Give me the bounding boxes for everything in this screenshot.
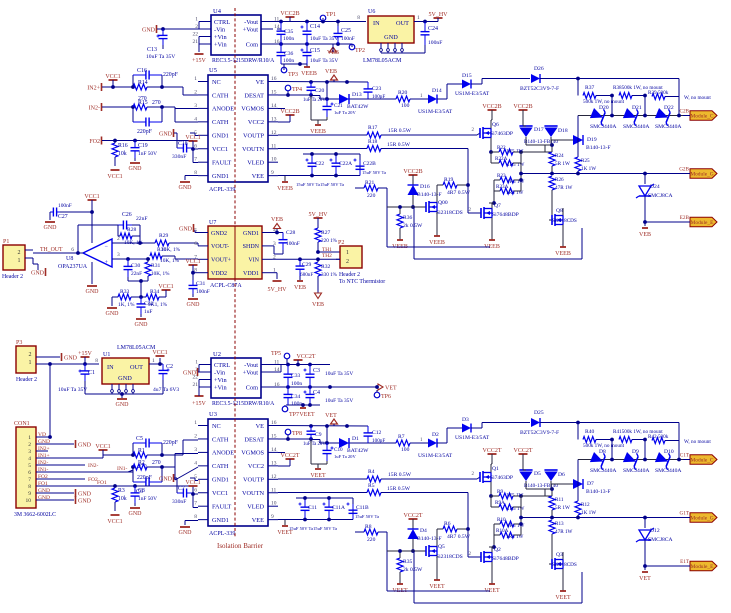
svg-text:VCC1: VCC1 <box>185 480 200 486</box>
svg-text:C12: C12 <box>372 430 382 436</box>
svg-text:47R 1W: 47R 1W <box>555 529 573 535</box>
svg-text:TP5: TP5 <box>271 351 281 357</box>
svg-text:15R 0.5W: 15R 0.5W <box>387 142 411 148</box>
svg-text:To NTC Thermistor: To NTC Thermistor <box>339 279 385 285</box>
svg-text:OUT: OUT <box>396 20 409 27</box>
svg-text:Q00: Q00 <box>438 200 448 206</box>
svg-text:+Vin: +Vin <box>214 41 227 48</box>
svg-text:14: 14 <box>271 103 277 109</box>
svg-text:D22: D22 <box>664 105 674 111</box>
svg-text:R22: R22 <box>497 145 506 151</box>
svg-text:R8: R8 <box>365 524 372 530</box>
svg-text:2k 0.5W: 2k 0.5W <box>403 223 423 229</box>
svg-text:R18: R18 <box>368 139 378 145</box>
svg-text:16: 16 <box>271 76 277 82</box>
svg-text:TH_OUT: TH_OUT <box>40 247 63 253</box>
svg-text:R13: R13 <box>555 521 564 527</box>
svg-text:22nF: 22nF <box>136 216 148 222</box>
svg-text:100nF: 100nF <box>286 241 300 247</box>
svg-text:VD: VD <box>38 432 46 438</box>
svg-text:3: 3 <box>28 449 31 455</box>
svg-text:10uF Ta 35V: 10uF Ta 35V <box>146 54 175 60</box>
svg-text:GND: GND <box>118 375 132 382</box>
svg-text:D7: D7 <box>587 481 594 487</box>
svg-text:W, no mount: W, no mount <box>684 95 711 101</box>
svg-text:VOUT-: VOUT- <box>211 244 229 250</box>
svg-text:100nF: 100nF <box>196 289 210 295</box>
svg-text:C8: C8 <box>138 488 145 494</box>
svg-text:GND: GND <box>159 476 173 482</box>
svg-text:D19: D19 <box>587 137 597 143</box>
svg-text:GND: GND <box>183 370 197 376</box>
svg-text:10: 10 <box>271 157 277 163</box>
svg-text:-Vout: -Vout <box>244 362 258 369</box>
svg-text:VE: VE <box>256 423 265 430</box>
svg-text:Si7648BDP: Si7648BDP <box>492 212 519 218</box>
svg-text:1: 1 <box>195 360 198 366</box>
svg-text:4: 4 <box>194 116 197 122</box>
svg-text:16: 16 <box>271 420 277 426</box>
svg-text:VEET: VEET <box>429 584 445 590</box>
svg-text:+15V: +15V <box>192 58 206 64</box>
svg-text:VCC2T: VCC2T <box>296 354 315 360</box>
svg-text:15R 0.5W: 15R 0.5W <box>387 486 411 492</box>
svg-text:D18: D18 <box>558 128 568 134</box>
svg-text:100n: 100n <box>291 381 302 387</box>
svg-text:2k 0.5W: 2k 0.5W <box>403 567 423 573</box>
svg-text:4: 4 <box>28 456 31 462</box>
svg-text:R23: R23 <box>497 173 506 179</box>
svg-text:VEET: VEET <box>555 595 571 601</box>
svg-text:SMCJ440A: SMCJ440A <box>590 468 616 474</box>
svg-text:R35: R35 <box>403 559 413 565</box>
svg-text:R17: R17 <box>368 125 378 131</box>
svg-text:Module_G: Module_G <box>690 172 713 178</box>
svg-text:Si7648BDP: Si7648BDP <box>492 556 519 562</box>
svg-text:CTRL: CTRL <box>214 19 230 26</box>
svg-text:W, no mount: W, no mount <box>684 439 711 445</box>
svg-text:R12: R12 <box>581 502 590 508</box>
svg-text:5V_HV: 5V_HV <box>429 12 449 18</box>
svg-text:GND: GND <box>106 311 120 317</box>
svg-text:SMCJ440A: SMCJ440A <box>590 124 616 130</box>
svg-text:R7: R7 <box>398 434 405 440</box>
svg-text:Header 2: Header 2 <box>2 274 23 280</box>
svg-text:VEEB: VEEB <box>310 129 326 135</box>
svg-text:2: 2 <box>346 259 349 265</box>
svg-text:D16: D16 <box>420 184 430 190</box>
svg-text:10uF Ta 35V: 10uF Ta 35V <box>58 387 87 393</box>
svg-text:5R 1W: 5R 1W <box>555 505 570 511</box>
svg-text:R5: R5 <box>368 483 375 489</box>
svg-text:8: 8 <box>28 484 31 490</box>
svg-text:IN2-: IN2- <box>38 460 49 466</box>
svg-text:1K 1W: 1K 1W <box>581 510 596 516</box>
svg-text:P1: P1 <box>3 239 9 245</box>
svg-text:GND: GND <box>129 166 143 172</box>
svg-text:GND: GND <box>142 27 156 33</box>
svg-text:VDD1: VDD1 <box>243 271 259 277</box>
svg-text:GND: GND <box>78 491 92 497</box>
svg-text:Com: Com <box>246 384 258 391</box>
svg-text:IN: IN <box>107 364 114 371</box>
svg-text:C22: C22 <box>315 161 324 167</box>
svg-text:4R7 0.5W: 4R7 0.5W <box>447 190 471 196</box>
svg-text:Si7463DP: Si7463DP <box>490 475 513 481</box>
svg-text:C22B: C22B <box>363 161 376 167</box>
svg-text:GND: GND <box>129 511 143 517</box>
svg-text:13: 13 <box>271 460 277 466</box>
svg-text:GND1: GND1 <box>212 517 229 524</box>
svg-text:P3: P3 <box>16 340 22 346</box>
svg-text:C36: C36 <box>284 51 294 57</box>
svg-text:C2: C2 <box>166 364 173 370</box>
svg-text:47R 1W: 47R 1W <box>555 185 573 191</box>
svg-text:5R 1W: 5R 1W <box>555 161 570 167</box>
svg-text:Q1: Q1 <box>492 466 499 472</box>
svg-text:C31: C31 <box>196 281 206 287</box>
svg-text:D8: D8 <box>599 449 606 455</box>
svg-text:1uF Ta 20V: 1uF Ta 20V <box>334 454 356 459</box>
svg-text:1: 1 <box>29 360 32 366</box>
svg-text:REC3.5-1215DRW/R10/A: REC3.5-1215DRW/R10/A <box>212 58 275 64</box>
svg-text:TH2: TH2 <box>322 253 332 259</box>
svg-text:220pF: 220pF <box>163 440 179 446</box>
svg-text:B140-13-F: B140-13-F <box>586 145 611 151</box>
svg-text:21: 21 <box>193 39 199 45</box>
svg-text:GND: GND <box>44 225 58 231</box>
svg-text:R42 500k: R42 500k <box>648 434 669 440</box>
svg-text:US1M-E3/5AT: US1M-E3/5AT <box>455 91 490 97</box>
svg-text:CATH: CATH <box>212 92 229 99</box>
svg-text:GND: GND <box>78 442 92 448</box>
svg-text:6: 6 <box>194 487 197 493</box>
svg-text:C32: C32 <box>144 301 154 307</box>
svg-text:GND: GND <box>187 302 201 308</box>
svg-text:6: 6 <box>71 247 74 253</box>
svg-text:R10: R10 <box>497 517 506 523</box>
svg-text:R32: R32 <box>321 264 331 270</box>
svg-text:D9: D9 <box>632 449 639 455</box>
svg-text:VLED: VLED <box>247 504 264 511</box>
svg-text:IN1-: IN1- <box>38 467 49 473</box>
svg-text:15uF 50V Ta: 15uF 50V Ta <box>296 182 320 187</box>
svg-text:13: 13 <box>271 116 277 122</box>
svg-text:1: 1 <box>152 358 155 364</box>
svg-text:TP6: TP6 <box>381 394 391 400</box>
svg-text:6: 6 <box>28 470 31 476</box>
svg-text:VCC2B: VCC2B <box>280 11 299 17</box>
svg-text:VCC2B: VCC2B <box>403 169 422 175</box>
svg-text:270: 270 <box>152 460 161 466</box>
svg-text:3M 3662-6002LC: 3M 3662-6002LC <box>14 512 56 518</box>
svg-text:C25: C25 <box>341 28 351 34</box>
svg-text:Si2318CDS: Si2318CDS <box>436 554 463 560</box>
svg-text:VEB: VEB <box>294 285 306 291</box>
svg-text:GND1: GND1 <box>212 133 229 140</box>
svg-text:U8: U8 <box>66 256 73 262</box>
svg-text:15uF 50V Ta: 15uF 50V Ta <box>313 526 337 531</box>
svg-text:FO1: FO1 <box>97 480 107 486</box>
svg-text:15R 0.5W: 15R 0.5W <box>388 472 412 478</box>
svg-text:VCC2T: VCC2T <box>280 453 299 459</box>
svg-text:100n: 100n <box>283 58 294 64</box>
svg-text:C11: C11 <box>308 505 317 511</box>
svg-text:VET: VET <box>325 413 337 419</box>
svg-text:E2B: E2B <box>680 215 690 221</box>
svg-text:15uF 50V Ta: 15uF 50V Ta <box>320 182 344 187</box>
svg-text:US1M-E3/5AT: US1M-E3/5AT <box>418 109 453 115</box>
svg-text:C3: C3 <box>313 368 320 374</box>
svg-text:10uF Ta 35V: 10uF Ta 35V <box>325 371 353 377</box>
svg-text:9: 9 <box>271 170 274 176</box>
svg-text:VLED: VLED <box>247 160 264 167</box>
svg-text:R4: R4 <box>368 469 375 475</box>
svg-text:VCC1: VCC1 <box>152 350 167 356</box>
svg-text:Module_E: Module_E <box>691 220 714 226</box>
svg-text:8: 8 <box>357 15 360 21</box>
svg-text:D24: D24 <box>650 184 660 190</box>
svg-text:R3: R3 <box>118 488 125 494</box>
svg-text:VDD2: VDD2 <box>211 271 227 277</box>
svg-text:VCC1: VCC1 <box>107 174 122 180</box>
svg-text:1nF 50V: 1nF 50V <box>138 151 157 157</box>
svg-text:VOUTN: VOUTN <box>242 490 264 497</box>
svg-text:VCC2T: VCC2T <box>482 448 501 454</box>
svg-text:VCC1: VCC1 <box>105 74 120 80</box>
svg-text:12: 12 <box>271 130 277 136</box>
svg-text:OPA237UA: OPA237UA <box>58 264 88 270</box>
svg-text:Header 2: Header 2 <box>339 272 360 278</box>
svg-text:GND1: GND1 <box>212 173 229 180</box>
svg-text:U6: U6 <box>368 9 375 15</box>
svg-text:VCC2B: VCC2B <box>513 104 532 110</box>
svg-text:330 1%: 330 1% <box>321 272 338 278</box>
svg-text:TP8: TP8 <box>292 431 302 437</box>
svg-text:VCC1: VCC1 <box>212 490 228 497</box>
svg-text:C21: C21 <box>334 103 343 109</box>
svg-text:Si2318CDS: Si2318CDS <box>552 218 577 224</box>
svg-text:SHDN: SHDN <box>243 244 260 250</box>
svg-text:Q6: Q6 <box>492 122 499 128</box>
svg-text:C22A: C22A <box>339 161 352 167</box>
svg-text:SMCJ440A: SMCJ440A <box>655 124 681 130</box>
svg-text:R21: R21 <box>365 180 375 186</box>
svg-text:15uF 50V Ta: 15uF 50V Ta <box>355 514 379 519</box>
svg-text:C4: C4 <box>313 390 320 396</box>
svg-text:C28: C28 <box>286 230 296 236</box>
svg-text:C19: C19 <box>138 143 148 149</box>
svg-text:VEB: VEB <box>271 217 283 223</box>
svg-text:R20: R20 <box>398 90 408 96</box>
svg-text:VOUT+: VOUT+ <box>211 258 232 264</box>
svg-text:C1: C1 <box>88 370 95 376</box>
svg-text:C18: C18 <box>178 141 188 147</box>
svg-text:Si2318CDS: Si2318CDS <box>552 562 577 568</box>
svg-text:4R7 0.5W: 4R7 0.5W <box>447 534 471 540</box>
svg-text:C1T: C1T <box>680 453 690 459</box>
svg-text:15: 15 <box>271 433 277 439</box>
svg-text:8: 8 <box>194 514 197 520</box>
svg-text:11: 11 <box>271 487 277 493</box>
svg-text:SMCJ440A: SMCJ440A <box>623 124 649 130</box>
svg-text:US1M-E3/5AT: US1M-E3/5AT <box>418 453 453 459</box>
svg-text:22nF: 22nF <box>131 271 142 277</box>
svg-text:15uF 50V Ta: 15uF 50V Ta <box>362 170 386 175</box>
svg-text:ANODE: ANODE <box>212 106 234 113</box>
svg-text:IN1-: IN1- <box>117 466 128 472</box>
svg-text:VEEB: VEEB <box>277 186 293 192</box>
svg-text:1uF: 1uF <box>144 309 152 315</box>
svg-text:330nF: 330nF <box>172 154 186 160</box>
svg-text:+15V: +15V <box>192 401 206 407</box>
svg-text:C23: C23 <box>372 86 382 92</box>
svg-text:G2B: G2B <box>679 167 689 173</box>
svg-text:R1: R1 <box>138 448 145 454</box>
svg-text:FO2: FO2 <box>89 139 100 145</box>
svg-text:US1M-E3/5AT: US1M-E3/5AT <box>455 435 490 441</box>
svg-text:680nF: 680nF <box>300 272 313 278</box>
svg-text:4u7 Ta 6V3: 4u7 Ta 6V3 <box>153 387 179 393</box>
svg-text:Q3: Q3 <box>556 552 563 558</box>
svg-text:VCC2T: VCC2T <box>403 513 422 519</box>
svg-text:CTRL: CTRL <box>214 362 230 369</box>
svg-text:GND: GND <box>179 185 193 191</box>
svg-text:B140-13-F: B140-13-F <box>417 192 442 198</box>
svg-text:D5: D5 <box>534 471 541 477</box>
svg-text:100: 100 <box>401 447 410 453</box>
svg-text:C13: C13 <box>147 47 157 53</box>
svg-text:D1: D1 <box>352 436 359 442</box>
svg-text:15: 15 <box>271 89 277 95</box>
svg-text:1: 1 <box>194 76 197 82</box>
svg-text:CON1: CON1 <box>14 421 30 427</box>
svg-text:C15: C15 <box>310 48 320 54</box>
svg-text:7: 7 <box>194 501 197 507</box>
svg-text:10k: 10k <box>118 151 127 157</box>
svg-text:5: 5 <box>28 463 31 469</box>
svg-text:GND: GND <box>116 402 130 408</box>
svg-text:R36: R36 <box>403 215 413 221</box>
svg-text:6: 6 <box>194 241 197 247</box>
svg-text:D12: D12 <box>650 528 660 534</box>
svg-text:R9: R9 <box>497 489 503 495</box>
svg-text:IN2-: IN2- <box>89 105 100 111</box>
svg-text:GND2: GND2 <box>211 231 227 237</box>
svg-text:VEB: VEB <box>325 69 337 75</box>
svg-text:DESAT: DESAT <box>244 436 264 443</box>
svg-text:GND: GND <box>64 356 78 362</box>
svg-text:10uF Ta 35V: 10uF Ta 35V <box>310 58 338 64</box>
svg-text:VEEB: VEEB <box>555 251 571 257</box>
svg-text:VEEB: VEEB <box>301 71 317 77</box>
svg-text:D2: D2 <box>432 432 439 438</box>
svg-text:IN: IN <box>373 20 380 27</box>
svg-text:220: 220 <box>367 193 376 199</box>
svg-text:15uF 50V Ta: 15uF 50V Ta <box>289 526 313 531</box>
svg-text:DESAT: DESAT <box>244 92 264 99</box>
svg-text:10uF Ta 35V: 10uF Ta 35V <box>325 398 353 404</box>
svg-text:Si7463DP: Si7463DP <box>490 131 513 137</box>
svg-text:VCC1: VCC1 <box>185 135 200 141</box>
svg-text:C30: C30 <box>131 263 141 269</box>
svg-text:VET: VET <box>385 386 397 392</box>
svg-text:C34: C34 <box>291 394 301 400</box>
svg-text:E1T: E1T <box>680 559 690 565</box>
svg-text:LM78L05ACM: LM78L05ACM <box>363 58 402 64</box>
svg-text:2: 2 <box>117 236 120 242</box>
svg-text:BZT52C3V9-7-F: BZT52C3V9-7-F <box>520 86 559 92</box>
svg-text:220 1%: 220 1% <box>321 238 338 244</box>
svg-text:11: 11 <box>271 143 277 149</box>
svg-text:D13: D13 <box>352 92 362 98</box>
svg-text:220pF: 220pF <box>137 475 153 481</box>
svg-text:R27: R27 <box>321 230 331 236</box>
svg-text:220pF: 220pF <box>163 72 179 78</box>
svg-text:VEET: VEET <box>299 412 315 418</box>
svg-text:R25: R25 <box>581 158 590 164</box>
svg-text:VGMOS: VGMOS <box>241 450 264 457</box>
svg-text:GND: GND <box>159 131 173 137</box>
svg-text:VEE: VEE <box>252 517 264 524</box>
svg-text:8: 8 <box>95 358 98 364</box>
svg-text:3: 3 <box>194 447 197 453</box>
svg-text:R40: R40 <box>585 429 595 435</box>
svg-text:U1: U1 <box>103 352 110 358</box>
svg-text:ANODE: ANODE <box>212 450 234 457</box>
svg-text:R22A: R22A <box>495 156 508 162</box>
svg-text:C20: C20 <box>315 88 325 94</box>
svg-text:B140-13-F: B140-13-F <box>586 489 611 495</box>
svg-text:1nF 50V: 1nF 50V <box>138 496 157 502</box>
svg-text:VCC2: VCC2 <box>248 119 264 126</box>
svg-text:GND: GND <box>179 226 193 232</box>
svg-text:100nF: 100nF <box>58 203 72 209</box>
svg-text:ACPL-C87A: ACPL-C87A <box>210 283 242 289</box>
svg-text:R26: R26 <box>555 177 564 183</box>
svg-text:FO1: FO1 <box>38 481 48 487</box>
svg-text:+Vin: +Vin <box>214 34 227 41</box>
svg-text:SMCJ440A: SMCJ440A <box>655 468 681 474</box>
svg-text:VCC2B: VCC2B <box>280 109 299 115</box>
svg-text:-Vout: -Vout <box>244 19 258 26</box>
svg-text:-Vin: -Vin <box>214 26 226 33</box>
svg-text:FAULT: FAULT <box>212 160 231 167</box>
svg-text:SMCJ440A: SMCJ440A <box>623 468 649 474</box>
svg-text:Si2318CDS: Si2318CDS <box>436 210 463 216</box>
svg-text:GND: GND <box>31 270 45 276</box>
svg-text:C5: C5 <box>136 436 143 442</box>
svg-text:R14: R14 <box>138 80 148 86</box>
svg-text:BZT52C3V9-7-F: BZT52C3V9-7-F <box>520 430 559 436</box>
svg-text:TP1: TP1 <box>326 12 336 18</box>
svg-text:VCC1: VCC1 <box>158 284 173 290</box>
svg-text:D6: D6 <box>558 472 565 478</box>
svg-text:D10: D10 <box>664 449 674 455</box>
svg-text:9: 9 <box>271 514 274 520</box>
svg-text:100nF: 100nF <box>341 36 355 42</box>
svg-text:VOUTP: VOUTP <box>243 133 264 140</box>
svg-text:R39 500k: R39 500k <box>648 90 669 96</box>
svg-text:R33: R33 <box>120 289 130 295</box>
svg-text:1: 1 <box>18 258 21 264</box>
svg-text:+Vin: +Vin <box>214 377 227 384</box>
svg-text:D17: D17 <box>534 127 544 133</box>
svg-text:4: 4 <box>194 460 197 466</box>
svg-text:100: 100 <box>401 103 410 109</box>
svg-text:+Vin: +Vin <box>214 384 227 391</box>
svg-text:1: 1 <box>194 420 197 426</box>
